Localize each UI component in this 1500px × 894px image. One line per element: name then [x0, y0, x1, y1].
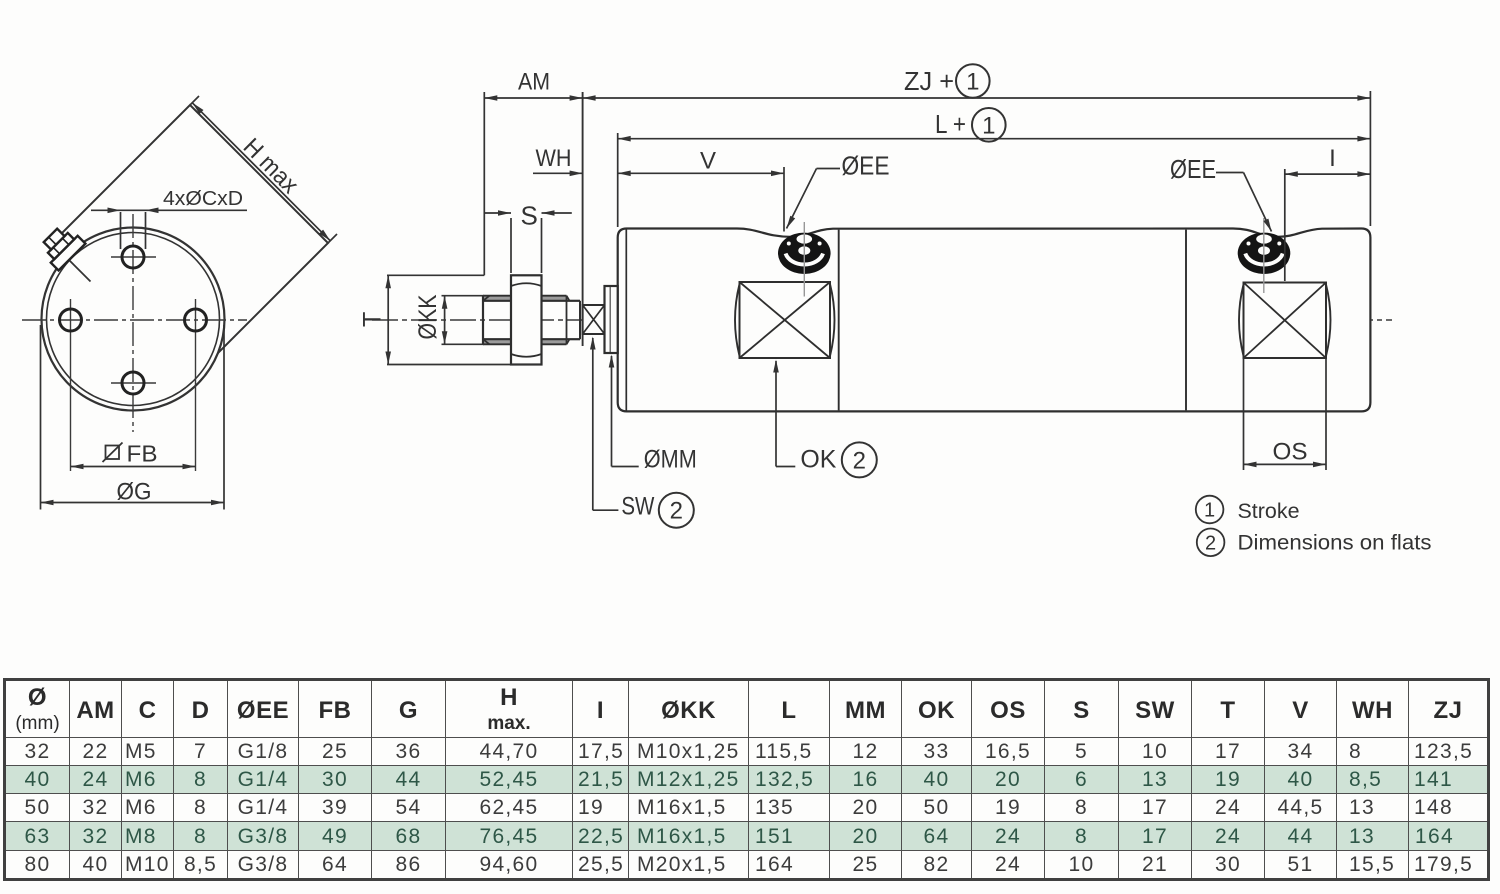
4xOCxD dimension line	[91, 209, 247, 211]
svg-text:2: 2	[853, 447, 866, 474]
OS extension line left	[1243, 358, 1245, 470]
rear port fitting body	[1238, 233, 1291, 274]
thread minor diameter bottom	[483, 338, 570, 340]
I arrow right	[1357, 171, 1370, 177]
front port boss X diagonal 2	[740, 282, 831, 358]
FB arrow right	[183, 464, 196, 470]
L dimension line	[618, 138, 1371, 140]
4xOCxD arrow right	[146, 208, 159, 214]
front port boss side arc left	[735, 284, 740, 356]
rod nut chamfer arc top	[511, 283, 542, 286]
thread end chamfer top	[567, 296, 570, 301]
AM extension line (rod end)	[483, 92, 485, 275]
extension spur at diamond top corner	[190, 96, 199, 105]
circled 2 (legend)	[1197, 529, 1225, 557]
rod step face	[579, 301, 581, 339]
rod collar	[605, 286, 618, 353]
plain rod bottom	[570, 338, 581, 340]
FB extension line left (through left hole)	[70, 299, 72, 471]
svg-text:ØG: ØG	[117, 479, 152, 506]
rear port fitting top hole	[1256, 234, 1272, 243]
SW leader arrow	[590, 337, 596, 350]
OS arrow left	[1244, 462, 1257, 468]
OEE rear leader horizontal	[1216, 172, 1244, 174]
cylinder body outline	[618, 229, 1371, 412]
S dimension tail left	[484, 212, 511, 214]
circled 2 (SW)	[659, 493, 694, 528]
4xOCxD arrow left	[108, 208, 121, 214]
rear port centre line	[1263, 218, 1265, 293]
circled 1 (L)	[972, 108, 1006, 142]
S arrow right	[542, 210, 555, 216]
svg-text:ZJ +: ZJ +	[904, 66, 954, 96]
OMM leader vertical	[611, 356, 613, 467]
OEE rear arrow	[1263, 219, 1271, 232]
H max dimension line	[192, 103, 330, 241]
svg-text:S: S	[521, 201, 538, 231]
ZJ arrow left	[583, 95, 596, 101]
front port boss box	[740, 282, 831, 358]
WH dimension tail	[533, 172, 583, 174]
front port fitting specks	[787, 242, 791, 246]
rear port boss side arc right	[1326, 285, 1331, 357]
OK leader arrow	[773, 360, 779, 373]
H max arrow lower	[319, 230, 330, 241]
circled 2 (OK)	[842, 442, 877, 477]
SW flats block	[583, 305, 605, 334]
thread major diameter top	[483, 295, 567, 297]
bolt hole left	[60, 309, 82, 331]
OG extension line left	[40, 325, 42, 510]
svg-text:ØMM: ØMM	[644, 446, 697, 474]
I arrow left	[1285, 171, 1298, 177]
4xOCxD extension line right	[145, 212, 147, 249]
S dimension tail right	[542, 212, 572, 214]
front port fitting white crescent	[786, 254, 823, 265]
main centre line	[372, 319, 1392, 321]
rod end face	[482, 296, 484, 345]
OK leader horizontal	[776, 466, 795, 468]
svg-text:L +: L +	[935, 109, 966, 139]
rear port boss X diagonal 2	[1244, 283, 1327, 359]
OS arrow right	[1313, 462, 1326, 468]
centre tick of top bolt hole	[111, 256, 156, 258]
AM arrow left	[484, 95, 497, 101]
rod nut	[511, 275, 542, 364]
svg-text:H max: H max	[238, 133, 304, 199]
S extension line right (nut face)	[541, 218, 543, 273]
T arrow up	[385, 275, 391, 288]
front port boss side arc right	[830, 284, 835, 356]
T arrow down	[385, 352, 391, 365]
extension spur at diamond right corner	[328, 234, 337, 243]
OG dimension line	[41, 502, 225, 504]
OG arrow right	[211, 500, 224, 506]
svg-text:OS: OS	[1273, 439, 1308, 466]
OKK arrow up	[442, 296, 448, 309]
OG extension line right	[223, 325, 225, 510]
svg-text:FB: FB	[127, 441, 158, 467]
rear port boss box	[1244, 283, 1327, 359]
front cap crimp line	[625, 230, 627, 411]
SW flats X diagonal 2	[583, 305, 605, 334]
bolt hole bottom	[122, 372, 144, 394]
OK leader vertical	[775, 361, 777, 467]
circled 1 (legend)	[1196, 496, 1224, 524]
front port centre line	[803, 222, 805, 297]
thread shading top	[483, 296, 567, 301]
ZJ extension line (thread shoulder)	[582, 92, 584, 346]
svg-text:OK: OK	[800, 446, 836, 474]
cylinder end face outer circle	[42, 228, 225, 411]
WH arrow	[570, 171, 583, 177]
svg-text:V: V	[700, 148, 716, 175]
svg-text:AM: AM	[518, 69, 550, 96]
front face extension line (L and V)	[617, 133, 619, 227]
T extension line bottom	[387, 364, 540, 366]
front port fitting mid hole	[798, 246, 810, 254]
FB arrow left	[71, 464, 84, 470]
bolt hole right	[185, 309, 207, 331]
svg-text:WH: WH	[536, 145, 572, 172]
rear port boss side arc left	[1239, 285, 1244, 357]
L arrow left	[618, 136, 631, 142]
rod end chamfer top	[483, 296, 490, 301]
OS dimension line	[1244, 463, 1327, 465]
I dimension line	[1285, 173, 1371, 175]
ZJ dimension line	[583, 97, 1371, 99]
svg-text:T: T	[359, 312, 387, 327]
H max arrow upper	[192, 103, 203, 114]
OMM leader horizontal	[612, 466, 639, 468]
OG arrow left	[41, 500, 54, 506]
OKK dimension line	[444, 296, 446, 345]
rear port fitting specks	[1247, 242, 1251, 246]
svg-text:ØEE: ØEE	[1170, 154, 1216, 184]
OKK arrow down	[442, 331, 448, 344]
svg-text:Dimensions on flats: Dimensions on flats	[1238, 531, 1432, 555]
bolt hole top	[122, 246, 144, 268]
ZJ arrow right	[1357, 95, 1370, 101]
V arrow right	[771, 171, 784, 177]
4xOCxD extension line left	[120, 212, 122, 249]
rod end chamfer bottom	[483, 339, 490, 344]
svg-text:1: 1	[982, 112, 995, 139]
T extension line top	[387, 274, 484, 276]
OS extension line right	[1325, 358, 1327, 470]
thread end face	[566, 296, 568, 345]
front port fitting body	[778, 233, 831, 274]
OKK extension line top	[442, 295, 485, 297]
SW leader horizontal	[593, 509, 619, 511]
S arrow left	[498, 210, 511, 216]
AM dimension line	[484, 97, 582, 99]
V dimension line	[618, 172, 784, 174]
rod nut chamfer arc bottom	[511, 354, 542, 357]
svg-text:SW: SW	[621, 493, 654, 521]
plain rod top	[570, 300, 581, 302]
rear weld line	[1185, 230, 1187, 411]
svg-text:ØKK: ØKK	[414, 294, 442, 339]
AM arrow right	[570, 95, 583, 101]
FB dimension line	[71, 466, 196, 468]
diamond lower-left edge stub over circle	[63, 254, 91, 282]
rear port fitting mid hole	[1258, 246, 1270, 254]
V extension line (front port centre)	[783, 167, 785, 232]
circled 1 (ZJ)	[956, 64, 990, 98]
FB extension line right (through right hole)	[195, 299, 197, 471]
OEE rear leader diagonal	[1244, 173, 1272, 232]
vertical centre line of end view	[132, 214, 134, 432]
rod collar inner line	[609, 287, 611, 352]
OEE front arrow	[787, 216, 796, 229]
OEE front leader horizontal	[817, 168, 841, 170]
rear port boss X diagonal 1	[1244, 283, 1327, 359]
OEE front leader diagonal	[787, 169, 817, 229]
svg-text:2: 2	[1205, 532, 1216, 554]
svg-text:1: 1	[966, 69, 979, 96]
SW leader vertical	[592, 338, 594, 510]
end-cap square (diamond, rotated 45)	[52, 105, 328, 381]
port plug fitting at upper-left (rotated 45)	[37, 222, 85, 270]
horizontal centre line of end view	[22, 319, 247, 321]
centre tick of bottom bolt hole	[111, 382, 156, 384]
S extension line left (nut face)	[510, 218, 512, 273]
square symbol slash	[103, 443, 123, 463]
right extension line (rear face, ZJ and L)	[1369, 91, 1371, 226]
OKK extension line bottom	[442, 343, 485, 345]
svg-text:I: I	[1329, 145, 1336, 172]
svg-text:Stroke: Stroke	[1238, 499, 1300, 523]
V arrow left	[618, 171, 631, 177]
rear port fitting white crescent	[1245, 254, 1282, 265]
svg-text:1: 1	[1204, 500, 1215, 522]
svg-text:4xØCxD: 4xØCxD	[163, 188, 243, 210]
OMM leader arrow	[609, 355, 615, 368]
front port fitting top hole	[797, 234, 813, 243]
SW flats X diagonal 1	[583, 305, 605, 334]
thread shading bottom	[483, 339, 567, 344]
cylinder end face inner circle	[47, 233, 220, 406]
front weld line	[838, 230, 840, 411]
square symbol of FB	[106, 446, 120, 460]
thread major diameter bottom	[483, 343, 567, 345]
svg-text:ØEE: ØEE	[842, 151, 890, 181]
svg-text:2: 2	[670, 498, 683, 525]
thread end chamfer bottom	[567, 339, 570, 344]
thread minor diameter top	[483, 300, 570, 302]
front port boss X diagonal 1	[740, 282, 831, 358]
T dimension line	[387, 275, 389, 364]
I extension line (rear port centre)	[1284, 169, 1286, 281]
L arrow right	[1357, 136, 1370, 142]
